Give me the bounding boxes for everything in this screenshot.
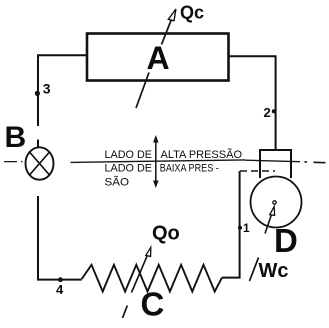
svg-text:D: D (274, 222, 298, 259)
svg-text:3: 3 (43, 81, 51, 97)
svg-text:4: 4 (56, 282, 64, 297)
svg-text:SÃO: SÃO (105, 176, 130, 189)
svg-text:1: 1 (243, 221, 250, 235)
svg-text:LADO DE: LADO DE (105, 162, 153, 174)
svg-text:ALTA PRESSÃO: ALTA PRESSÃO (161, 148, 243, 161)
svg-text:C: C (141, 286, 165, 323)
svg-text:LADO DE: LADO DE (105, 149, 153, 161)
svg-text:BAIXA PRES -: BAIXA PRES - (160, 162, 219, 174)
svg-text:2: 2 (264, 105, 271, 120)
svg-text:B: B (5, 121, 27, 154)
svg-text:A: A (147, 40, 170, 76)
svg-text:Qc: Qc (180, 3, 204, 23)
svg-text:Wc: Wc (259, 260, 289, 282)
svg-text:Qo: Qo (152, 223, 180, 245)
